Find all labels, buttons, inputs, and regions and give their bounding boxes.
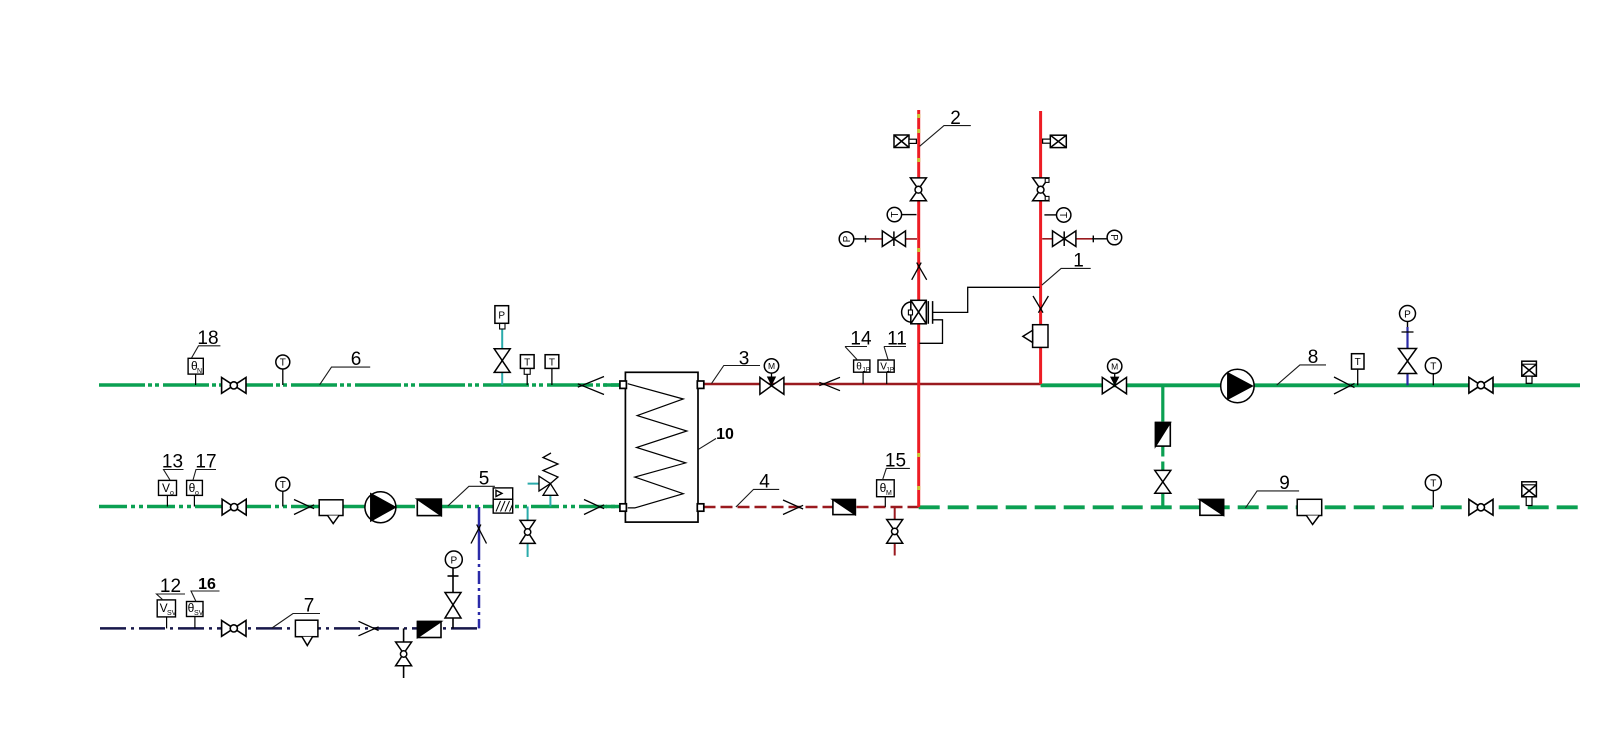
svg-text:M: M (1111, 361, 1118, 371)
svg-text:T: T (524, 357, 530, 368)
svg-text:P: P (450, 555, 457, 566)
svg-text:1: 1 (1073, 251, 1084, 272)
svg-text:8: 8 (1308, 347, 1319, 368)
svg-text:o: o (195, 490, 199, 497)
svg-text:18: 18 (197, 328, 218, 349)
svg-text:2: 2 (950, 108, 961, 129)
svg-text:3: 3 (739, 349, 750, 370)
svg-text:T: T (1430, 478, 1436, 489)
svg-text:P: P (1404, 309, 1411, 320)
svg-text:1P: 1P (863, 368, 870, 374)
svg-text:11: 11 (887, 329, 907, 350)
svg-text:M: M (886, 490, 892, 497)
svg-text:P: P (1108, 234, 1119, 241)
svg-text:P: P (842, 235, 853, 242)
svg-text:T: T (1057, 212, 1068, 218)
svg-text:15: 15 (885, 451, 906, 472)
svg-text:SV: SV (167, 610, 177, 617)
svg-text:M: M (768, 361, 775, 371)
svg-text:T: T (1430, 362, 1436, 373)
svg-text:P: P (498, 310, 505, 321)
svg-text:14: 14 (850, 329, 872, 350)
svg-text:1P: 1P (887, 368, 894, 374)
svg-text:T: T (280, 480, 286, 491)
svg-text:4: 4 (759, 472, 770, 493)
svg-text:10: 10 (716, 426, 734, 443)
svg-text:9: 9 (1279, 473, 1290, 494)
svg-text:θ: θ (856, 362, 862, 373)
svg-text:7: 7 (304, 596, 315, 617)
svg-text:o: o (170, 490, 174, 497)
svg-text:6: 6 (351, 349, 362, 370)
svg-text:5: 5 (479, 469, 490, 490)
svg-text:16: 16 (198, 576, 216, 593)
svg-text:12: 12 (160, 576, 181, 597)
svg-text:13: 13 (162, 452, 183, 473)
svg-text:N: N (197, 368, 202, 375)
svg-text:17: 17 (195, 452, 216, 473)
svg-text:T: T (549, 357, 555, 368)
svg-text:V: V (162, 481, 170, 495)
svg-text:SV: SV (194, 610, 204, 617)
svg-text:T: T (890, 212, 901, 218)
svg-text:T: T (280, 358, 286, 369)
svg-text:T: T (1355, 357, 1361, 368)
